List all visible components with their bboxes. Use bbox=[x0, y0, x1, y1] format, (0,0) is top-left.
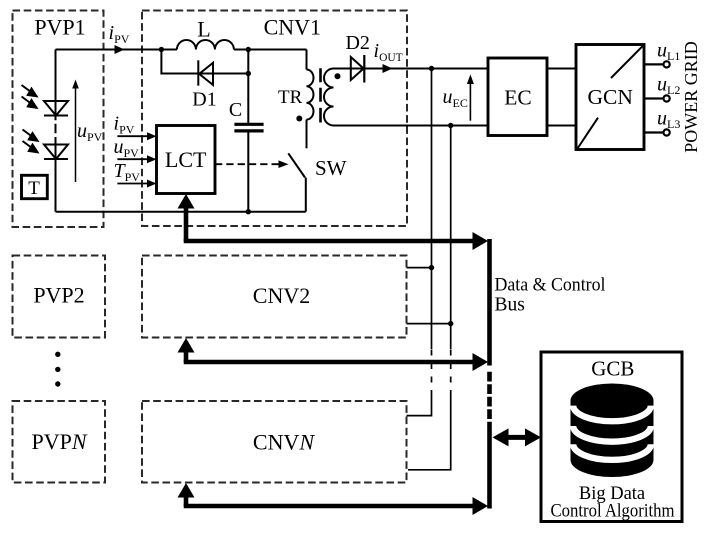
svg-text:Bus: Bus bbox=[495, 295, 525, 316]
svg-text:PVP1: PVP1 bbox=[34, 15, 85, 40]
svg-text:PVP2: PVP2 bbox=[33, 283, 84, 308]
svg-text:TR: TR bbox=[278, 87, 303, 108]
svg-text:PVPN: PVPN bbox=[31, 429, 87, 454]
svg-text:POWER GRID: POWER GRID bbox=[681, 41, 701, 153]
svg-text:L: L bbox=[197, 17, 210, 42]
svg-text:SW: SW bbox=[315, 156, 347, 180]
svg-text:C: C bbox=[229, 99, 242, 121]
svg-text:D2: D2 bbox=[345, 32, 369, 54]
svg-text:CNV2: CNV2 bbox=[253, 283, 310, 308]
svg-text:D1: D1 bbox=[192, 89, 216, 111]
svg-text:Data & Control: Data & Control bbox=[495, 275, 606, 296]
svg-text:CNV1: CNV1 bbox=[264, 15, 321, 40]
svg-text:T: T bbox=[28, 178, 40, 199]
svg-text:CNVN: CNVN bbox=[253, 430, 315, 455]
svg-text:LCT: LCT bbox=[165, 147, 207, 172]
svg-text:Control Algorithm: Control Algorithm bbox=[551, 502, 676, 522]
svg-text:EC: EC bbox=[504, 86, 531, 110]
svg-text:GCN: GCN bbox=[587, 85, 633, 109]
svg-text:GCB: GCB bbox=[591, 357, 634, 381]
